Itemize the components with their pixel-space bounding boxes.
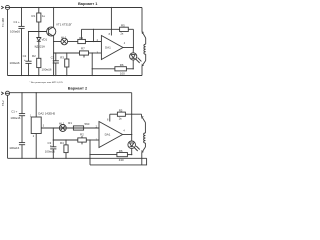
- svg-text:С1 +: С1 +: [11, 109, 17, 113]
- svg-text:С1 +: С1 +: [14, 20, 20, 24]
- svg-text:R5: R5: [119, 109, 123, 113]
- svg-text:R4: R4: [60, 141, 64, 145]
- svg-text:Вариант 2: Вариант 2: [68, 85, 88, 90]
- svg-text:R6: R6: [119, 149, 123, 153]
- svg-text:430: 430: [119, 158, 124, 162]
- svg-text:100м16: 100м16: [10, 29, 20, 33]
- svg-text:HL1: HL1: [59, 121, 65, 125]
- svg-text:+: +: [24, 58, 26, 62]
- svg-text:100м16: 100м16: [9, 146, 19, 150]
- svg-text:R2: R2: [32, 54, 36, 58]
- svg-text:100м16: 100м16: [45, 150, 55, 154]
- svg-text:ТБ-2: ТБ-2: [1, 100, 5, 106]
- svg-text:DA1: DA1: [105, 133, 111, 137]
- svg-text:R2: R2: [80, 133, 84, 137]
- svg-text:* Все резисторы типа МЛТ-0,125: * Все резисторы типа МЛТ-0,125: [30, 82, 64, 84]
- svg-text:DA2 142ЕН5: DA2 142ЕН5: [38, 111, 55, 115]
- svg-text:100м16: 100м16: [10, 61, 20, 65]
- svg-text:100м16: 100м16: [42, 67, 52, 71]
- svg-text:DA1: DA1: [105, 46, 111, 50]
- svg-text:R1: R1: [68, 121, 72, 125]
- svg-text:VT1 КТ315Г: VT1 КТ315Г: [56, 22, 72, 26]
- svg-text:R5: R5: [121, 24, 125, 28]
- svg-text:R4: R4: [79, 36, 83, 40]
- svg-text:С3: С3: [51, 56, 55, 60]
- svg-text:R6: R6: [120, 63, 124, 67]
- svg-text:100: 100: [120, 71, 125, 75]
- svg-text:КД521А: КД521А: [35, 45, 45, 49]
- svg-text:Вариант 1: Вариант 1: [78, 1, 98, 6]
- svg-text:100м16: 100м16: [10, 116, 20, 120]
- svg-text:560: 560: [85, 122, 90, 126]
- svg-text:+: +: [50, 143, 52, 147]
- svg-text:R1: R1: [32, 14, 36, 18]
- svg-text:R7: R7: [81, 46, 85, 50]
- svg-text:ТС-16В: ТС-16В: [1, 18, 5, 27]
- svg-text:VD1: VD1: [42, 38, 48, 42]
- svg-text:R3: R3: [60, 56, 64, 60]
- svg-text:HL1: HL1: [61, 36, 67, 40]
